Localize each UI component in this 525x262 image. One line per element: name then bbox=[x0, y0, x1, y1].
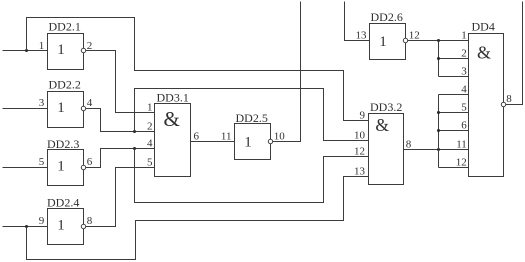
svg-text:8: 8 bbox=[87, 215, 93, 227]
wire strap DD4 pins 4-5-6-11-12 bbox=[439, 95, 469, 168]
gate body outline bbox=[48, 209, 84, 245]
svg-text:12: 12 bbox=[354, 146, 365, 158]
svg-text:13: 13 bbox=[354, 166, 366, 178]
nand-gate DD4 bbox=[456, 20, 512, 177]
gate body outline bbox=[155, 104, 191, 177]
svg-text:1: 1 bbox=[57, 100, 65, 116]
svg-text:1: 1 bbox=[39, 40, 45, 52]
svg-text:&: & bbox=[477, 43, 491, 63]
svg-text:8: 8 bbox=[406, 139, 412, 151]
svg-text:DD2.2: DD2.2 bbox=[49, 78, 81, 92]
svg-text:DD2.1: DD2.1 bbox=[49, 20, 81, 34]
svg-text:1: 1 bbox=[57, 42, 65, 58]
svg-text:1: 1 bbox=[147, 102, 153, 114]
svg-text:DD2.6: DD2.6 bbox=[371, 10, 403, 24]
svg-text:&: & bbox=[375, 115, 389, 135]
svg-text:12: 12 bbox=[456, 157, 467, 169]
svg-text:4: 4 bbox=[87, 97, 93, 109]
wire input to DD2.2 pin 3 bbox=[3, 108, 48, 110]
svg-text:1: 1 bbox=[244, 135, 252, 151]
wire DD3.2 output pin 8 to DD4 pin 11 bbox=[404, 149, 469, 151]
svg-text:DD2.3: DD2.3 bbox=[47, 137, 79, 151]
svg-text:DD2.5: DD2.5 bbox=[236, 111, 268, 125]
wire DD4 output pin 8 up to top edge bbox=[506, 2, 523, 105]
node junction strap at DD4 pin 1 bbox=[437, 39, 440, 42]
svg-text:12: 12 bbox=[409, 30, 420, 42]
node junction on DD2.1 input bbox=[25, 49, 28, 52]
gate body outline bbox=[370, 24, 406, 60]
node junction on DD2.4 input bbox=[25, 225, 28, 228]
svg-text:1: 1 bbox=[379, 34, 387, 50]
inverter DD2.4 bbox=[39, 196, 93, 245]
output inversion bubble bbox=[268, 139, 272, 143]
wire input to DD2.4 pin 9 bbox=[3, 226, 48, 228]
gate body outline bbox=[369, 114, 404, 185]
inverter DD2.5 bbox=[221, 111, 285, 160]
output inversion bubble bbox=[81, 48, 85, 52]
node junction strap at DD4 pin 5 bbox=[437, 111, 440, 114]
svg-text:DD2.4: DD2.4 bbox=[47, 196, 79, 210]
gate body outline bbox=[48, 92, 84, 128]
inverter DD2.6 bbox=[356, 10, 420, 60]
svg-text:4: 4 bbox=[147, 138, 153, 150]
wire DD2.2 output pin 4 to DD3.1 pin 2 bbox=[86, 109, 155, 132]
svg-text:3: 3 bbox=[461, 66, 467, 78]
wire DD2.6 output pin 12 to DD4 pin 1 bbox=[408, 40, 469, 42]
node junction on DD3.1 pin 4 wire bbox=[133, 147, 136, 150]
svg-text:13: 13 bbox=[356, 30, 368, 42]
svg-text:1: 1 bbox=[57, 218, 65, 234]
wire DD2.4 output pin 8 to DD3.1 pin 5 bbox=[86, 168, 155, 227]
wire net D branch down to DD3.2 pin 12 bbox=[135, 149, 369, 203]
node junction strap at DD4 pin 11 bbox=[437, 148, 440, 151]
wire top edge down to DD2.6 pin 13 bbox=[345, 2, 370, 41]
inverter DD2.3 bbox=[39, 137, 93, 186]
output inversion bubble bbox=[81, 224, 85, 228]
node junction strap at DD4 pin 2 bbox=[437, 57, 440, 60]
gate body outline bbox=[235, 124, 271, 160]
svg-text:2: 2 bbox=[147, 121, 153, 133]
svg-text:1: 1 bbox=[461, 30, 467, 42]
svg-text:4: 4 bbox=[461, 84, 467, 96]
wire net F: DD2.4 input junction down and over to DD3.2 pin 13 bbox=[27, 177, 369, 260]
svg-text:DD3.1: DD3.1 bbox=[157, 91, 189, 105]
svg-text:8: 8 bbox=[506, 93, 512, 105]
svg-text:9: 9 bbox=[360, 110, 366, 122]
wire net B branch up to DD3.2 pin 10 bbox=[135, 89, 369, 141]
svg-text:10: 10 bbox=[354, 130, 366, 142]
gate body outline bbox=[48, 150, 84, 186]
wire net A: DD2.1 input junction up and over to DD3.2 pin 9 bbox=[27, 18, 369, 121]
svg-text:5: 5 bbox=[39, 156, 45, 168]
and-gate DD3.1 bbox=[147, 91, 200, 177]
wire DD2.1 output pin 2 to DD3.1 pin 1 bbox=[86, 51, 155, 113]
svg-text:&: & bbox=[164, 107, 180, 131]
svg-text:9: 9 bbox=[39, 215, 45, 227]
node junction strap at DD4 pin 6 bbox=[437, 129, 440, 132]
svg-text:5: 5 bbox=[461, 102, 467, 114]
svg-text:6: 6 bbox=[87, 156, 93, 168]
svg-text:5: 5 bbox=[147, 157, 153, 169]
gate body outline bbox=[48, 34, 84, 70]
svg-text:2: 2 bbox=[87, 40, 93, 52]
inverter DD2.2 bbox=[39, 78, 93, 128]
wire input to DD2.1 pin 1 bbox=[3, 50, 48, 52]
svg-text:1: 1 bbox=[57, 159, 65, 175]
wire strap DD4 pins 1-2-3 bbox=[439, 41, 469, 77]
svg-text:6: 6 bbox=[461, 120, 467, 132]
wire DD2.3 output pin 6 to DD3.1 pin 4 bbox=[86, 149, 155, 168]
output inversion bubble bbox=[81, 106, 85, 110]
svg-text:3: 3 bbox=[39, 97, 45, 109]
svg-text:10: 10 bbox=[274, 131, 286, 143]
gate body outline bbox=[469, 34, 504, 177]
inverter DD2.1 bbox=[39, 20, 93, 70]
svg-text:DD3.2: DD3.2 bbox=[370, 100, 402, 114]
wire DD3.1 output pin 6 to DD2.5 pin 11 bbox=[191, 141, 235, 143]
output inversion bubble bbox=[501, 102, 505, 106]
and-gate DD3.2 bbox=[354, 100, 412, 185]
wire input to DD2.3 pin 5 bbox=[3, 167, 48, 169]
node junction on DD3.1 pin 2 wire bbox=[133, 130, 136, 133]
output inversion bubble bbox=[81, 165, 85, 169]
wire DD2.5 output pin 10 up to top edge bbox=[273, 2, 301, 142]
svg-text:2: 2 bbox=[461, 48, 467, 60]
svg-text:11: 11 bbox=[221, 131, 232, 143]
output inversion bubble bbox=[403, 38, 407, 42]
svg-text:11: 11 bbox=[456, 139, 467, 151]
svg-text:DD4: DD4 bbox=[472, 20, 495, 34]
svg-text:6: 6 bbox=[194, 131, 200, 143]
